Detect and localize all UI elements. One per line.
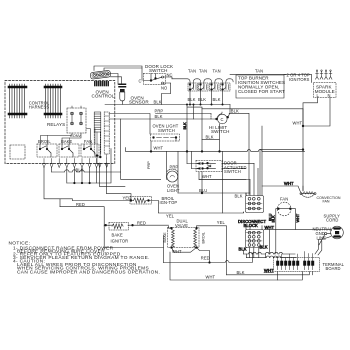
svg-text:YEL: YEL	[166, 213, 175, 218]
svg-text:LIGHT: LIGHT	[167, 188, 180, 193]
wire spark L down to blk	[303, 98, 318, 109]
wire corner to disconnect right	[260, 150, 303, 196]
wire oven control to sensor	[111, 74, 156, 85]
wire RED bus	[60, 207, 104, 227]
svg-text:WHT: WHT	[206, 275, 216, 280]
svg-text:C: C	[221, 117, 224, 122]
top ignitor electrodes E1-E4	[316, 70, 333, 79]
wire YEL bus	[72, 163, 131, 201]
control harness label	[28, 100, 50, 110]
oven sensor label	[129, 96, 149, 105]
wire broil ignitor right to yel	[158, 201, 243, 214]
wire ignition BLK drops	[190, 91, 223, 105]
wire WHT spark net	[302, 109, 304, 191]
svg-text:BLK: BLK	[231, 108, 239, 113]
svg-text:TAN: TAN	[199, 69, 207, 74]
svg-text:BOARD: BOARD	[326, 266, 341, 271]
wire BLK corner to lamp row	[121, 119, 161, 179]
wire bake ignitor loop	[104, 225, 163, 248]
wires under terminal board	[278, 272, 313, 281]
svg-text:BLK: BLK	[260, 245, 268, 250]
svg-text:YEL: YEL	[217, 220, 226, 225]
svg-text:WHT: WHT	[284, 181, 294, 186]
wire BLK bus 2	[109, 118, 217, 120]
wire bus y186	[100, 163, 126, 186]
disconnect block lower J2	[246, 230, 264, 248]
svg-text:WHT: WHT	[202, 174, 212, 179]
svg-text:NO: NO	[161, 86, 167, 91]
notice text	[9, 241, 161, 276]
hi limit switch S5	[209, 112, 230, 134]
svg-text:BLK: BLK	[198, 97, 206, 102]
svg-text:CONTROL: CONTROL	[92, 94, 115, 99]
svg-text:WHT: WHT	[154, 146, 164, 151]
fan motor M1	[277, 197, 291, 216]
svg-text:BLOCK: BLOCK	[244, 223, 259, 228]
relay contact BROIL	[37, 139, 57, 157]
wire PRP bus	[109, 114, 211, 135]
svg-text:BAKE: BAKE	[112, 232, 123, 237]
svg-text:CLOSED FOR START: CLOSED FOR START	[238, 89, 285, 94]
top burner ignition switch S2	[172, 69, 198, 92]
wire BLK bus from sensor	[105, 101, 230, 105]
wire door actuated connections	[187, 163, 246, 179]
wire bus y183	[67, 149, 111, 184]
top burner ignition switch S3	[190, 69, 208, 92]
svg-text:BLK: BLK	[213, 97, 221, 102]
svg-text:BLK: BLK	[154, 100, 162, 105]
door lock switch S1	[139, 64, 174, 91]
svg-text:C: C	[139, 79, 142, 84]
svg-text:VALVE: VALVE	[175, 223, 188, 228]
svg-text:PRP: PRP	[147, 161, 151, 169]
wire RED right	[197, 248, 210, 263]
dual valve V1	[163, 219, 205, 255]
svg-text:IGNITORS: IGNITORS	[289, 77, 310, 82]
wire hi-limit BLK right	[228, 113, 249, 194]
svg-text:BLK: BLK	[76, 167, 84, 172]
wire RED YEL split	[60, 199, 72, 207]
svg-text:CORD: CORD	[326, 217, 338, 222]
wire supply cord leads	[264, 229, 331, 255]
svg-text:TAN: TAN	[255, 69, 263, 74]
svg-text:SWITCH: SWITCH	[158, 128, 175, 133]
svg-text:BAKE: BAKE	[61, 139, 72, 144]
wire WHT to convection fan	[262, 186, 303, 192]
svg-text:FAN: FAN	[84, 139, 92, 144]
ribbon cable 2	[45, 84, 61, 118]
svg-text:RED: RED	[201, 256, 210, 261]
oven control connector P1	[90, 70, 111, 86]
svg-text:TAN: TAN	[188, 69, 196, 74]
supply cord P2	[313, 213, 344, 240]
svg-text:BLK: BLK	[235, 194, 243, 199]
wire BLK bus low	[227, 272, 310, 275]
wire RED long bus	[163, 253, 252, 263]
svg-text:BLK: BLK	[155, 114, 163, 119]
wire WHT long bus	[163, 248, 302, 281]
svg-text:BROIL: BROIL	[201, 232, 205, 243]
svg-text:IGNITOR: IGNITOR	[111, 239, 129, 244]
wire BLU bus	[178, 192, 246, 194]
svg-text:RED: RED	[137, 221, 146, 226]
svg-text:SWITCH: SWITCH	[224, 169, 241, 174]
spare dashed box	[10, 145, 25, 159]
wire chain to note box	[230, 73, 286, 75]
wire door lock NO down	[162, 83, 171, 105]
svg-text:CAN CAUSE IMPROPER AND DANGERO: CAN CAUSE IMPROPER AND DANGEROUS OPERATI…	[17, 269, 160, 275]
wire note box to spark L	[284, 74, 312, 82]
wires disconnect lower to terminal	[246, 226, 262, 258]
svg-text:TAN: TAN	[213, 69, 221, 74]
svg-text:BLU: BLU	[199, 188, 207, 193]
connector pin arrows at control box edge	[42, 159, 98, 168]
wire BLK hop bus left	[52, 170, 121, 172]
wire fan BLK WHT drops	[276, 209, 296, 254]
wire valve bottoms WHT	[172, 248, 197, 253]
wire oven control to door lock C	[94, 66, 142, 80]
svg-text:BLK: BLK	[272, 215, 276, 223]
oven sensor RT1	[119, 84, 126, 101]
relay contact BAKE	[59, 139, 79, 157]
svg-text:SENSOR: SENSOR	[129, 100, 149, 105]
svg-text:IGN-TOP: IGN-TOP	[160, 200, 178, 205]
top burner ignition switch S4	[201, 69, 221, 92]
wire WHT bus under light switch	[126, 141, 305, 151]
top burner note box	[236, 75, 285, 98]
ribbon cable 1	[9, 84, 26, 118]
convection fan M2	[300, 192, 341, 204]
relay contact FAN	[81, 139, 99, 157]
2 or 4 top ignitors label	[287, 73, 311, 83]
svg-text:BLK: BLK	[239, 247, 247, 252]
wire drops below control box	[44, 168, 97, 199]
svg-text:WHT: WHT	[296, 213, 300, 222]
wire valve tops	[169, 226, 227, 275]
top burner ignition switch S5b	[212, 79, 234, 91]
wire relays to contacts staircase	[41, 129, 96, 145]
svg-text:FAN: FAN	[280, 197, 288, 202]
svg-text:CONV: CONV	[70, 134, 81, 138]
svg-text:SWITCH: SWITCH	[149, 68, 168, 73]
disconnect block upper J1	[246, 196, 264, 213]
svg-text:PRP: PRP	[155, 109, 164, 114]
terminal board TB1	[274, 252, 345, 272]
broil ignitor E5	[130, 196, 177, 205]
svg-text:RELAYS: RELAYS	[47, 122, 65, 127]
relays K1 dashed box	[67, 106, 86, 135]
svg-text:BLK: BLK	[188, 97, 196, 102]
svg-text:FAN: FAN	[323, 200, 330, 204]
control box dashed outline	[5, 81, 115, 164]
oven harness bundle	[94, 112, 109, 168]
svg-text:BLK: BLK	[183, 122, 187, 130]
wire spark N down	[303, 98, 330, 127]
wires into disconnect top	[246, 126, 262, 196]
wire door lock NC to ignition chain	[164, 77, 173, 79]
svg-text:SWITCH: SWITCH	[211, 129, 230, 134]
spark module U1	[314, 83, 337, 99]
svg-text:BLK: BLK	[237, 270, 245, 275]
wire crossover hops row	[244, 252, 296, 254]
wire PRP to oven light	[167, 138, 179, 194]
svg-text:HARNESS: HARNESS	[29, 105, 50, 110]
svg-text:RED: RED	[76, 202, 85, 207]
oven control label	[92, 90, 115, 99]
svg-text:BAKE: BAKE	[163, 232, 167, 243]
svg-text:WHT: WHT	[264, 268, 274, 273]
svg-text:BLK: BLK	[206, 135, 214, 140]
bake ignitor E6	[105, 221, 169, 244]
oven light switch S6	[151, 124, 180, 141]
BLK labels under ignition switches	[188, 97, 221, 102]
svg-text:WHT: WHT	[293, 121, 303, 126]
oven light DS1	[167, 165, 180, 193]
door actuated switch S7	[196, 161, 247, 180]
svg-text:BROIL: BROIL	[38, 139, 51, 144]
wire hi-limit bottom to bus	[202, 124, 223, 213]
wire YEL into disconnect	[243, 211, 245, 214]
